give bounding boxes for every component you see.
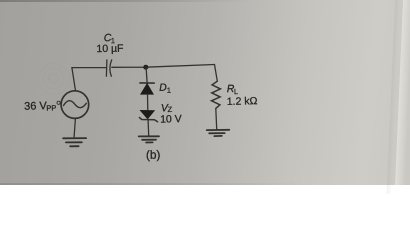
diode D1 (cathode bar): [140, 82, 154, 84]
svg-text:36 V: 36 V: [24, 100, 48, 113]
wire source bottom to ground: [74, 119, 75, 137]
svg-text:10 µF: 10 µF: [96, 43, 123, 56]
wire zener to ground: [147, 120, 150, 136]
AC source circle: [61, 91, 89, 119]
ground (source): [63, 138, 86, 146]
wire D1 to zener: [147, 94, 149, 110]
wire source vertical (corner down to source circle): [72, 68, 76, 91]
svg-text:PP: PP: [46, 103, 56, 112]
svg-text:1: 1: [167, 86, 171, 95]
svg-text:(b): (b): [146, 148, 161, 162]
capacitor C1: [106, 60, 111, 76]
svg-text:1.2 kΩ: 1.2 kΩ: [227, 95, 258, 108]
wire top-left horizontal segment (corner to capacitor): [72, 67, 106, 69]
label 36 VPP: [24, 100, 56, 113]
resistor RL zigzag: [212, 81, 221, 108]
label C1: [104, 32, 115, 45]
ground (resistor branch): [207, 130, 230, 136]
label VZ: [161, 102, 173, 114]
ground (zener branch): [139, 136, 159, 142]
wire junction down to D1: [146, 67, 147, 83]
label RL: [227, 83, 239, 96]
wire right corner down to resistor: [215, 65, 218, 82]
wire capacitor to junction to right corner: [112, 65, 215, 68]
zener VZ (triangle, pointing down): [140, 110, 154, 118]
svg-text:10 V: 10 V: [160, 113, 182, 125]
diode D1 (triangle, pointing up): [141, 84, 154, 95]
small circle artifact right of VPP label: [57, 101, 60, 104]
sine wave inside source: [64, 101, 87, 108]
faint ghost ring watermark: [39, 64, 70, 95]
label D1: [159, 82, 171, 95]
zener VZ (bent bar): [139, 118, 157, 122]
node junction dot: [143, 65, 148, 70]
wire resistor to ground: [215, 108, 218, 129]
